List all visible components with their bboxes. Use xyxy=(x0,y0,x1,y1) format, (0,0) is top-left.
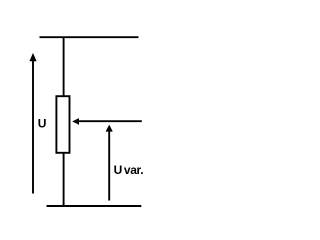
wiper arrow xyxy=(72,118,142,125)
wire bottom return rail xyxy=(47,205,142,207)
svg-text:U: U xyxy=(38,117,47,131)
label U var. xyxy=(114,163,144,177)
wire top rail to potentiometer xyxy=(63,37,65,97)
voltage arrow U xyxy=(29,53,36,194)
potentiometer body xyxy=(56,96,69,153)
wire top supply rail xyxy=(40,36,139,38)
wire potentiometer to bottom rail xyxy=(63,153,65,206)
svg-text:var.: var. xyxy=(124,163,143,177)
svg-text:U: U xyxy=(114,163,123,177)
voltage arrow U var xyxy=(106,125,113,201)
